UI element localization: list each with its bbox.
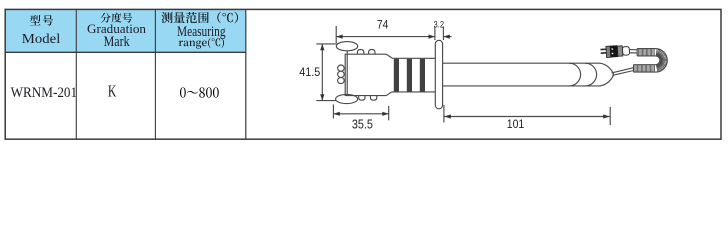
- svg-text:Model: Model: [22, 32, 61, 47]
- dimension 101 extension line left: [443, 105, 445, 123]
- probe tube shading arc 2: [585, 63, 596, 86]
- body cell text 0～800: [180, 87, 219, 97]
- dimension 41.5 line: [321, 44, 323, 101]
- head bottom cap screw ellipse: [336, 94, 358, 103]
- dimension 35.5 line: [333, 113, 388, 115]
- header cell text 分度号: [101, 13, 133, 23]
- head hinge knuckles: [338, 65, 345, 71]
- head top screw bump 2: [369, 50, 375, 55]
- svg-text:3.2: 3.2: [434, 19, 445, 29]
- dimension 41.5 tick top: [316, 43, 340, 45]
- head bottom screw bump 2: [370, 96, 376, 101]
- head top screw bump 1: [357, 50, 363, 55]
- dimension 3.2 extension line: [442, 27, 444, 41]
- lead wire from probe tip: [612, 68, 634, 76]
- head body outline: [345, 54, 392, 95]
- dimension 35.5 extension line right: [388, 106, 390, 120]
- table header separator: [5, 51, 246, 53]
- header cell text range(℃): [179, 38, 224, 49]
- probe tube bottom line: [443, 85, 600, 87]
- mounting flange: [435, 40, 442, 109]
- dimension 3.2 tail line: [443, 36, 451, 38]
- coiled cable hatching: [635, 49, 667, 72]
- outer frame: [5, 9, 721, 139]
- header cell text 型号: [30, 15, 53, 25]
- svg-text:41.5: 41.5: [299, 65, 320, 79]
- threaded neck bottom line: [392, 91, 436, 93]
- thread band 3: [420, 59, 425, 92]
- head screw axis line: [346, 51, 348, 95]
- head top cap screw ellipse: [336, 42, 357, 51]
- probe tube shading arc 1: [569, 63, 580, 86]
- svg-text:K: K: [108, 81, 117, 100]
- plug cable to coil: [629, 50, 637, 53]
- probe tube tip: [600, 63, 613, 86]
- thread band 2: [407, 59, 412, 92]
- coiled cable outline: [634, 49, 668, 73]
- svg-text:Mark: Mark: [104, 34, 131, 50]
- probe tube top line: [443, 62, 600, 64]
- table right edge line: [245, 9, 247, 139]
- table column line 1: [75, 9, 77, 139]
- header cell text 测量范围（℃）: [161, 12, 237, 23]
- table header background: [6, 10, 246, 52]
- dimension 101 extension line right: [609, 107, 611, 125]
- svg-text:35.5: 35.5: [352, 117, 373, 131]
- threaded neck top line: [392, 57, 436, 59]
- table column line 2: [154, 9, 156, 139]
- dimension 74 extension line left: [335, 26, 337, 43]
- thread band 1: [394, 59, 399, 92]
- dimension 74 extension line right: [434, 27, 436, 41]
- svg-text:101: 101: [507, 117, 525, 131]
- head bottom screw bump 1: [359, 96, 365, 101]
- connector plug: [600, 45, 629, 59]
- dimension 101 line: [444, 116, 609, 118]
- svg-text:WRNM-201: WRNM-201: [11, 85, 78, 101]
- svg-text:74: 74: [377, 18, 389, 32]
- dimension 35.5 extension line left: [332, 105, 334, 119]
- dimension 74 line: [336, 36, 435, 38]
- dimension 41.5 tick bottom: [316, 100, 336, 102]
- svg-text:Measuring: Measuring: [177, 24, 226, 40]
